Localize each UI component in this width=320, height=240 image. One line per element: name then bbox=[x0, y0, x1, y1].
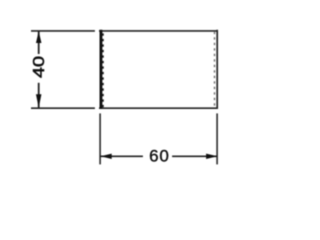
dim 60: dimension line left stub bbox=[100, 155, 142, 157]
dim 60: right arrow bbox=[206, 154, 217, 159]
hidden dashed line near right edge bbox=[214, 32, 216, 107]
dim 40: bottom extension line bbox=[31, 107, 95, 109]
svg-text:40: 40 bbox=[31, 56, 48, 78]
dim 60: dimension line right stub bbox=[172, 155, 217, 157]
dim 60: left arrow bbox=[101, 154, 112, 159]
rectangle top edge bbox=[99, 30, 218, 32]
rectangle left edge (thick bar) bbox=[100, 30, 103, 109]
dim 40: top arrow bbox=[36, 31, 42, 43]
dim 60: right extension line bbox=[216, 113, 218, 164]
dim 40: bottom arrow bbox=[36, 94, 42, 108]
svg-text:60: 60 bbox=[149, 146, 170, 165]
dim 40: dimension line upper stub bbox=[38, 31, 40, 54]
rectangle bottom edge bbox=[99, 107, 218, 109]
dim 40: top extension line bbox=[31, 30, 95, 32]
hidden dashed line merged with left edge (teeth) bbox=[102, 33, 104, 107]
dim 60: left extension line bbox=[99, 113, 101, 164]
rectangle right edge bbox=[216, 30, 218, 109]
dim 40: dimension line lower stub bbox=[38, 83, 40, 108]
